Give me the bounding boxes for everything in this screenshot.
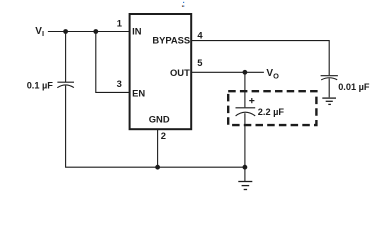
svg-text:IN: IN xyxy=(132,25,142,36)
svg-text:GND: GND xyxy=(149,114,170,125)
svg-text:OUT: OUT xyxy=(170,67,190,78)
dashed box around C2 xyxy=(228,91,316,125)
ground symbol bottom xyxy=(238,182,252,190)
svg-text:5: 5 xyxy=(197,57,202,68)
capacitor C2 (2.2 uF, polarized) xyxy=(236,108,256,116)
plus sign for C2 polarity xyxy=(249,98,254,103)
svg-text:3: 3 xyxy=(117,78,122,89)
svg-text:EN: EN xyxy=(132,87,145,98)
capacitor C3 (0.01 uF) xyxy=(321,76,338,80)
wire C2 bottom to ground rail xyxy=(244,113,246,167)
wire GND pin 2 down xyxy=(157,129,159,167)
svg-text:0.01 µF: 0.01 µF xyxy=(338,82,370,92)
svg-text:1: 1 xyxy=(117,17,122,28)
svg-text:2: 2 xyxy=(161,130,166,141)
wire C1 bottom to ground rail xyxy=(66,86,245,168)
capacitor C1 (0.1 uF) xyxy=(57,82,74,88)
wire C2 branch down xyxy=(244,72,246,107)
wire OUT pin 5 to V_O xyxy=(191,71,264,73)
svg-text:0.1 µF: 0.1 µF xyxy=(27,81,54,91)
IC U1 LDO regulator body xyxy=(130,14,192,129)
wire V_I to IN pin xyxy=(48,31,130,33)
svg-text:I: I xyxy=(42,29,44,38)
wire C1 branch down from node xyxy=(65,32,67,83)
wire stub to bottom ground xyxy=(244,167,246,181)
svg-text:4: 4 xyxy=(197,29,203,40)
node junction dot at OUT xyxy=(243,70,248,75)
wire BYPASS pin 4 to C3 xyxy=(191,41,329,76)
wire EN branch xyxy=(96,32,130,93)
node junction dot C2 at rail xyxy=(243,165,248,170)
svg-text:O: O xyxy=(273,72,279,81)
svg-text:BYPASS: BYPASS xyxy=(152,34,190,45)
wire C3 bottom to ground xyxy=(328,78,330,97)
artifact colon mark top xyxy=(182,2,184,7)
ground symbol right xyxy=(322,98,336,104)
node junction dot GND pin at rail xyxy=(155,165,160,170)
node junction dot at EN branch xyxy=(93,29,98,34)
svg-text:2.2 µF: 2.2 µF xyxy=(258,107,285,117)
node junction dot at C1 branch xyxy=(63,29,68,34)
